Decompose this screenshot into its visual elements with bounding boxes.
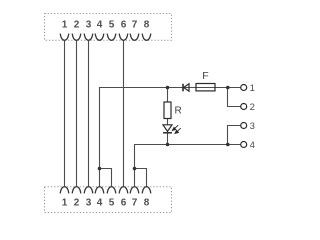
svg-text:6: 6: [121, 20, 127, 31]
svg-text:6: 6: [121, 198, 127, 209]
svg-text:3: 3: [86, 20, 92, 31]
svg-text:4: 4: [97, 198, 103, 209]
svg-text:F: F: [202, 70, 208, 82]
svg-text:2: 2: [250, 102, 255, 113]
svg-text:8: 8: [144, 20, 150, 31]
svg-text:3: 3: [86, 198, 92, 209]
svg-text:4: 4: [250, 140, 255, 151]
svg-text:2: 2: [74, 198, 80, 209]
svg-text:5: 5: [109, 198, 115, 209]
svg-text:1: 1: [62, 198, 68, 209]
svg-text:3: 3: [250, 121, 255, 132]
svg-text:7: 7: [132, 198, 138, 209]
svg-text:8: 8: [144, 198, 150, 209]
svg-text:1: 1: [62, 20, 68, 31]
svg-text:1: 1: [250, 83, 255, 94]
svg-text:4: 4: [97, 20, 103, 31]
svg-text:7: 7: [132, 20, 138, 31]
svg-text:5: 5: [109, 20, 115, 31]
svg-text:2: 2: [74, 20, 80, 31]
svg-text:R: R: [175, 105, 182, 116]
